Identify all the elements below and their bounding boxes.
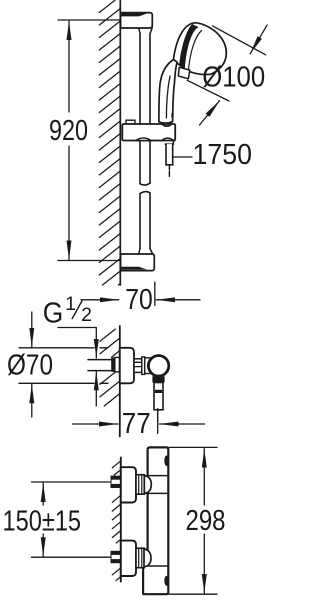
svg-text:2: 2 bbox=[81, 304, 92, 326]
wall (middle view) bbox=[119, 326, 121, 437]
holder on rail bbox=[122, 120, 175, 140]
hose cone crescent bbox=[162, 123, 172, 127]
dimension 920 extension top bbox=[58, 19, 120, 21]
rail right edge bbox=[149, 34, 151, 184]
svg-text:Ø100: Ø100 bbox=[202, 62, 265, 94]
escutcheon bbox=[121, 541, 136, 576]
dimension Ø100 bbox=[187, 25, 267, 125]
wall hatching (top view) bbox=[99, 0, 120, 285]
flange bbox=[142, 357, 145, 375]
face inner rim line bbox=[188, 31, 201, 71]
escutcheon bbox=[121, 467, 136, 502]
dimension 920 line bbox=[68, 21, 70, 112]
rail collar bbox=[139, 28, 153, 34]
svg-text:70: 70 bbox=[125, 284, 153, 316]
svg-text:920: 920 bbox=[49, 115, 88, 147]
union nut bbox=[136, 548, 144, 568]
svg-text:1750: 1750 bbox=[193, 139, 253, 171]
union nut bbox=[136, 475, 144, 495]
svg-text:Ø70: Ø70 bbox=[7, 350, 53, 382]
leader 1750 bbox=[173, 156, 192, 158]
nut under knob bbox=[152, 376, 164, 382]
thermostat body bbox=[143, 447, 168, 594]
knob circle bbox=[148, 356, 168, 376]
lower fitting bbox=[111, 541, 151, 576]
G1/2 leader + arrows bbox=[58, 328, 96, 407]
union fitting at wall bbox=[111, 357, 115, 372]
body ring bbox=[145, 358, 151, 374]
rail left edge bbox=[139, 34, 141, 184]
rail bbox=[140, 34, 150, 249]
bracket shadow wedge bbox=[121, 267, 147, 270]
svg-text:298: 298 bbox=[186, 505, 226, 537]
dome cap bbox=[144, 476, 151, 494]
dimension 920 extension bottom bbox=[58, 260, 120, 262]
wall bbox=[119, 0, 121, 285]
hex nut bbox=[111, 551, 121, 563]
escutcheon (middle view) bbox=[120, 348, 134, 384]
holder notch over rail bbox=[136, 138, 151, 141]
svg-text:77: 77 bbox=[122, 408, 151, 440]
dimension 70 bbox=[81, 282, 200, 306]
bracket block bbox=[121, 13, 153, 28]
dimension 150±15 line bbox=[42, 483, 44, 505]
pivot tab bbox=[178, 67, 190, 79]
hex nut bbox=[111, 476, 121, 488]
spray face dark band bbox=[179, 24, 198, 69]
rail collar bottom bbox=[139, 249, 153, 255]
rail break bbox=[140, 183, 150, 185]
bottom bracket bbox=[121, 249, 155, 271]
hose stub below holder bbox=[165, 141, 173, 145]
top bracket bbox=[121, 13, 153, 34]
wall (bottom view) bbox=[120, 458, 122, 582]
head outline bbox=[173, 23, 226, 75]
label G 1/2 bbox=[43, 293, 92, 330]
holder notch over hose bbox=[162, 138, 174, 140]
bracket shadow wedge bbox=[121, 13, 147, 16]
handle tube bbox=[159, 60, 177, 124]
supply pipe bbox=[88, 360, 112, 371]
outlet tube bbox=[154, 383, 163, 410]
hand shower head bbox=[173, 23, 226, 75]
holder block bbox=[122, 124, 175, 141]
holder tab bbox=[126, 120, 135, 124]
neck bbox=[134, 359, 142, 373]
dimension 150±15 extensions bbox=[32, 481, 112, 483]
dome cap bbox=[144, 549, 151, 567]
hose nut tick bbox=[171, 114, 173, 117]
dimension 77 bbox=[73, 409, 205, 434]
upper fitting bbox=[111, 467, 151, 502]
dimension 298 bbox=[169, 447, 217, 594]
svg-text:1: 1 bbox=[65, 293, 76, 315]
screw dots bbox=[164, 456, 169, 467]
svg-text:G: G bbox=[43, 298, 64, 330]
wall hatching (middle view) bbox=[100, 329, 120, 406]
bracket block bbox=[121, 254, 155, 271]
dimension Ø70 bbox=[19, 312, 108, 417]
wall hatching (bottom view) bbox=[112, 461, 121, 581]
svg-text:150±15: 150±15 bbox=[3, 506, 82, 538]
